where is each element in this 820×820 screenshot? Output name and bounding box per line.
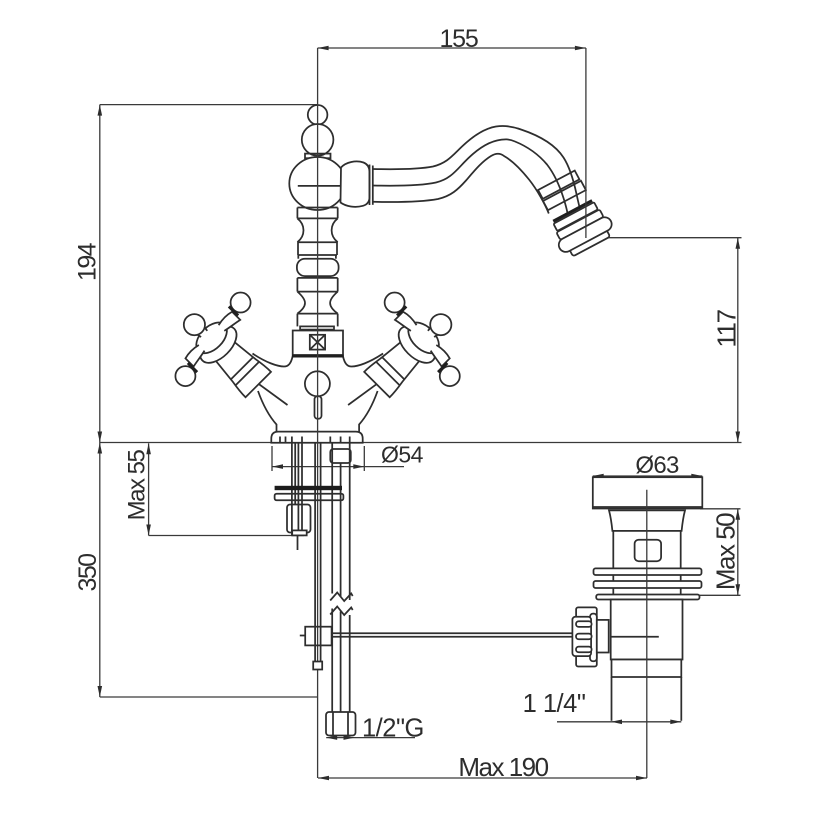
supply hose [332,443,350,712]
dim 194 left [74,105,319,443]
right handle crease [348,381,382,406]
spout root bulge [341,161,370,206]
spout joint ring [370,165,373,206]
svg-text:117: 117 [712,309,742,347]
drain set screw square [635,540,662,562]
popup rod foot [313,662,322,670]
popup lift stem [315,396,322,419]
dim 117 right [584,238,742,443]
popup rod bushing [330,449,351,463]
svg-text:1/2"G: 1/2"G [362,715,424,743]
horizontal linkage rod [332,633,573,637]
dim 350 [74,443,318,698]
hose break symbol [330,593,353,616]
locking ring 2 [594,581,702,588]
svg-text:Ø54: Ø54 [381,442,424,468]
collar under finial [305,154,331,159]
left handle crease [254,381,288,406]
stud tail [297,536,299,551]
svg-text:Max 50: Max 50 [711,513,741,590]
drain centerline [646,490,648,778]
svg-text:155: 155 [439,25,477,53]
flange neck flare [609,510,685,531]
drain flange [593,477,703,508]
sphere mid line [298,185,347,187]
top finial large ball [302,124,334,156]
rod inside drain [611,636,659,638]
dim Max 190 [318,752,647,782]
mounting nut [287,505,311,533]
155 extension over aerator [585,48,587,238]
dim 1 1/4" [523,690,682,724]
dim Max 50 [699,509,741,596]
body right side [359,391,378,432]
locking ring 3 [596,595,699,600]
base inlet ticks [280,437,350,443]
svg-text:1 1/4": 1 1/4" [523,690,586,718]
right handle [338,276,486,424]
svg-text:Max 55: Max 55 [124,449,151,520]
dim 155 top [318,25,586,100]
counter deck line [100,442,742,444]
dim Ø54 [272,442,424,472]
knurled popup knob [572,607,608,666]
faucet base [271,432,362,443]
threaded stud [291,443,293,535]
dim Ø63 [593,452,703,479]
aerator assembly [531,167,617,260]
drain lower body [611,600,683,660]
body left side [258,391,277,432]
svg-text:Ø63: Ø63 [635,452,679,479]
shank nut 1/2G [326,712,356,736]
spout tube bottom edge [373,154,549,214]
body edges between rings [612,575,614,581]
dim Max 55 [124,443,305,535]
faucet Y body shoulders [253,354,384,367]
popup vertical rod [315,443,321,662]
seal black band [275,486,342,490]
svg-text:350: 350 [74,554,102,592]
turned column [297,208,339,330]
main body sphere [289,157,345,210]
spout tube top edge [373,126,585,234]
X flange box [292,331,344,357]
top finial small ball [308,105,328,125]
drain upper body [613,531,680,569]
locking ring 1 [594,568,702,575]
svg-text:194: 194 [74,242,102,281]
faucet centerline [317,100,319,778]
tail pipe [612,660,682,721]
dim 1/2"G [326,715,424,743]
popup lift ball [305,371,330,396]
washer plate [275,494,344,501]
hose lines near stud [295,443,302,531]
left handle [150,276,298,424]
spout tube middle line [373,139,568,214]
svg-text:Max 190: Max 190 [458,752,548,782]
popup cross fitting [305,627,331,646]
fitting left nib [300,635,305,637]
nut collar [292,530,307,535]
